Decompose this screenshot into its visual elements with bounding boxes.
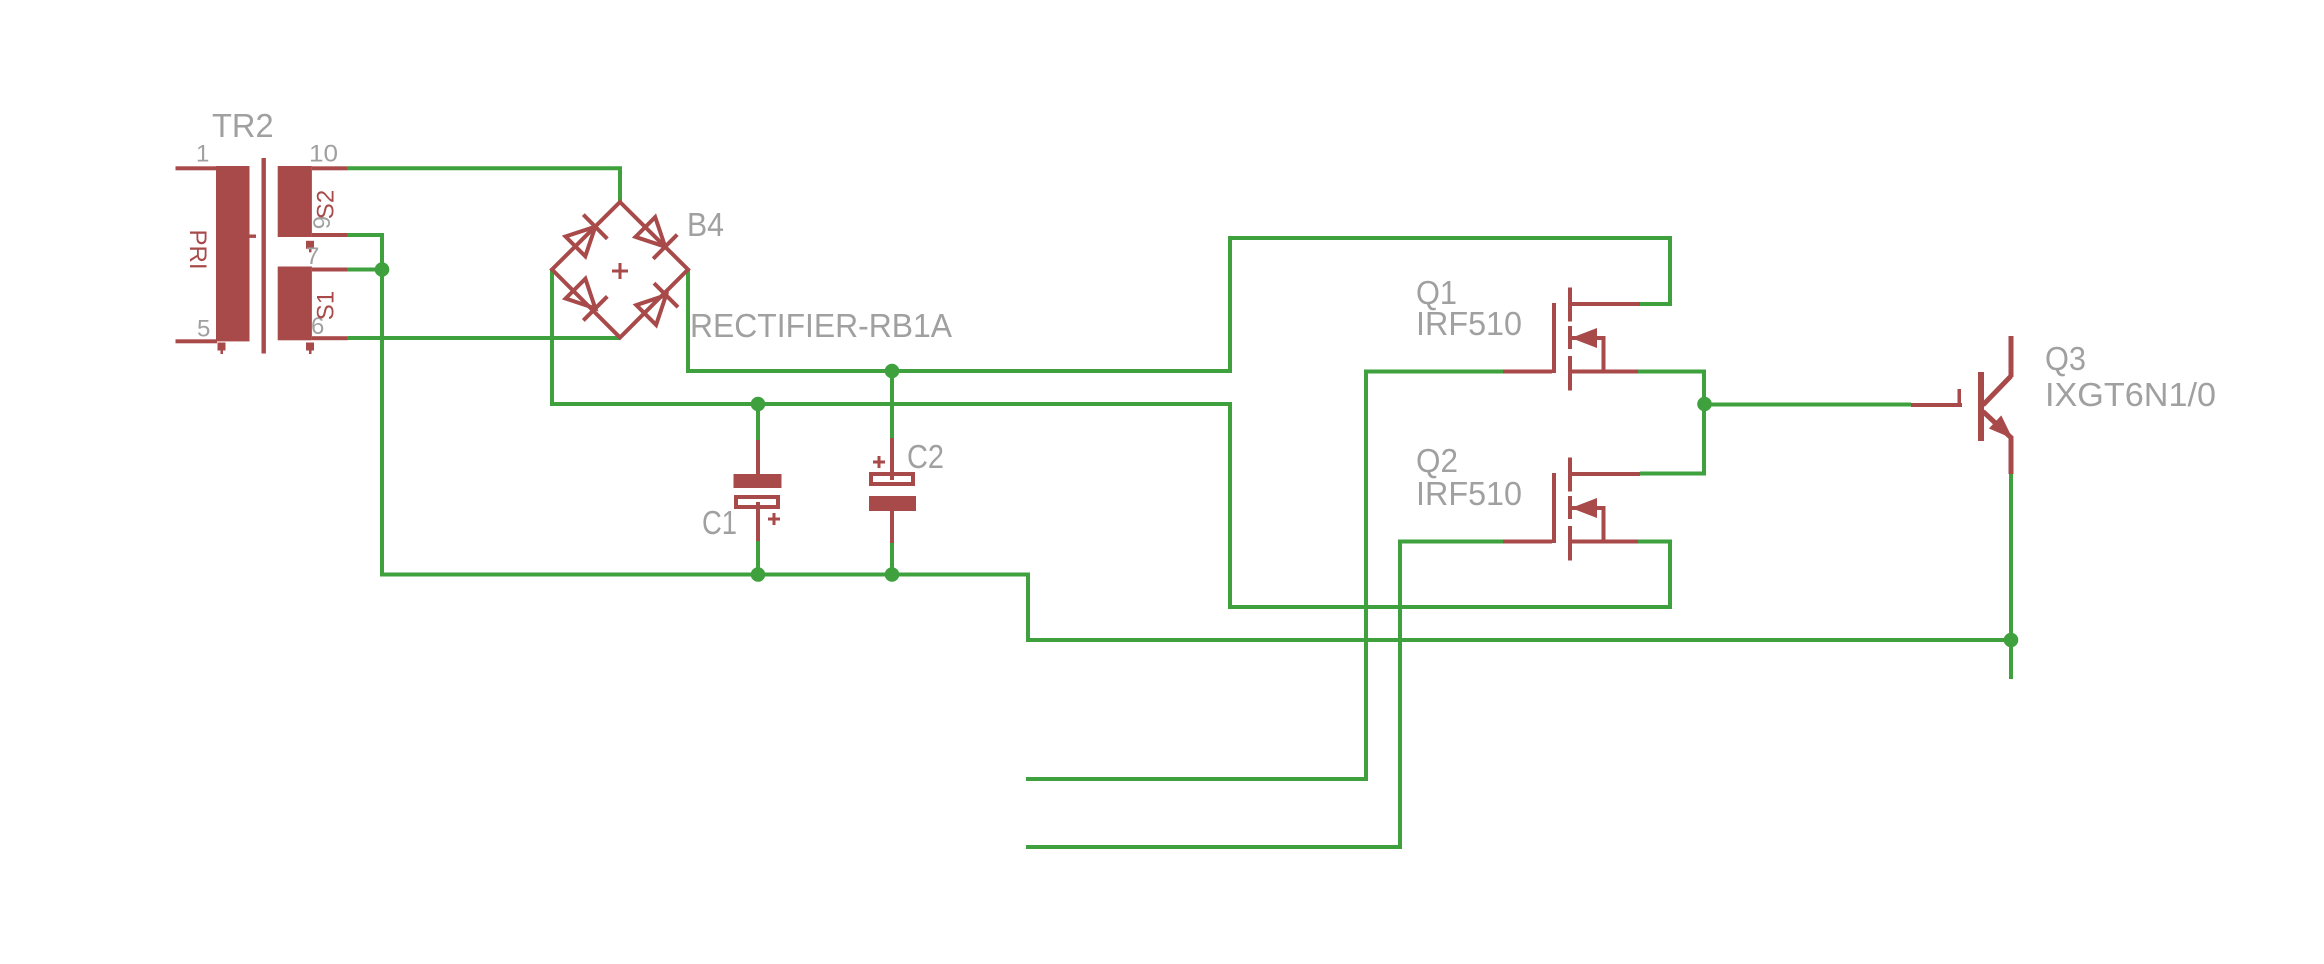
junction node pin7/pin9 xyxy=(375,262,390,277)
svg-text:S1: S1 xyxy=(313,291,340,320)
mosfet Q2 xyxy=(1503,458,1640,561)
C2 plus xyxy=(873,456,885,468)
TR2 pin 10 lead xyxy=(312,166,348,170)
svg-text:Q3: Q3 xyxy=(2045,340,2086,377)
TR2 pin 1 lead xyxy=(176,166,218,170)
TR2 pin9 mark xyxy=(306,241,314,249)
wire pin10 to bridge top xyxy=(348,168,620,202)
svg-text:PRI: PRI xyxy=(184,229,211,269)
Q3 collector diagonal xyxy=(1983,376,2011,405)
C2 bottom lead xyxy=(890,511,894,543)
diode bottom-left xyxy=(566,279,608,321)
svg-text:IXGT6N1/0: IXGT6N1/0 xyxy=(2045,376,2216,413)
Q2 gate bar xyxy=(1552,473,1556,543)
TR2 secondary S2 winding xyxy=(278,166,312,237)
wire Q3 emitter down xyxy=(2009,473,2013,679)
C1 bottom plate (outline) xyxy=(736,497,778,507)
wire Q1 gate xyxy=(1026,372,1503,780)
TR2 secondary S1 winding xyxy=(278,267,312,341)
diode bottom-right xyxy=(636,283,678,325)
Q3 gate tick xyxy=(1958,389,1962,405)
TR2 pin 5 lead xyxy=(176,339,218,343)
svg-text:TR2: TR2 xyxy=(212,107,274,144)
Q1 gate bar xyxy=(1552,303,1556,373)
Q1 source lead xyxy=(1572,370,1638,374)
svg-text:Q2: Q2 xyxy=(1416,442,1458,479)
C1 top plate (filled) xyxy=(734,474,782,488)
TR2 pin 6 lead xyxy=(312,336,348,340)
TR2 polarity tick xyxy=(243,235,256,238)
Q1 bulk line xyxy=(1572,336,1605,340)
Q3 collector vertical xyxy=(2009,336,2014,377)
wire net B: bridge left to Q2 source xyxy=(552,270,1670,607)
junction node C2 bottom xyxy=(885,567,900,582)
capacitor C2 xyxy=(869,438,916,543)
svg-text:C1: C1 xyxy=(702,504,737,541)
wire pin7 stub xyxy=(348,268,382,272)
svg-text:1: 1 xyxy=(196,141,209,168)
wire C1 branch top xyxy=(756,404,760,442)
junction node C1 top xyxy=(751,397,766,412)
C2 bottom plate (filled) xyxy=(869,496,916,511)
Q1 bulk arrow xyxy=(1571,328,1597,348)
svg-text:10: 10 xyxy=(309,141,338,168)
capacitor C1 xyxy=(734,440,782,541)
junction node Q3 emitter / bottom rail xyxy=(2004,633,2019,648)
TR2 pin 7 lead xyxy=(312,268,348,272)
wire C1 branch bottom xyxy=(756,540,760,575)
bridge rectifier B4 xyxy=(552,202,688,338)
svg-text:S2: S2 xyxy=(313,190,340,219)
wire C2 branch top xyxy=(890,371,894,440)
Q3 emitter diagonal xyxy=(1983,412,2012,439)
diode top-right xyxy=(636,217,678,259)
wire pin9 to junction and down to bottom rail xyxy=(348,235,2011,640)
wire pin6 to bridge bottom xyxy=(348,336,620,340)
TR2 core line xyxy=(262,158,266,354)
Q2 bulk line xyxy=(1572,506,1605,510)
TR2 pin5 mark xyxy=(218,343,226,351)
junction node C1 bottom xyxy=(751,567,766,582)
Q3 base bar xyxy=(1978,372,1984,441)
Q2 channel dashes xyxy=(1568,458,1572,492)
wire Q2 gate xyxy=(1026,542,1503,848)
TR2 primary winding xyxy=(216,166,250,341)
Q2 bulk arrow xyxy=(1571,498,1597,518)
svg-text:IRF510: IRF510 xyxy=(1416,305,1522,342)
svg-text:B4: B4 xyxy=(687,206,724,243)
diamond xyxy=(552,202,688,338)
wire net A: bridge right to Q1 drain xyxy=(688,238,1670,371)
Q3 emitter vertical xyxy=(2009,437,2014,474)
wire C2 branch bottom xyxy=(890,542,894,575)
svg-text:C2: C2 xyxy=(907,438,944,475)
Q1 channel dashes xyxy=(1568,288,1572,322)
C1 top lead xyxy=(756,440,760,474)
transistor Q3 xyxy=(1911,336,2014,474)
bridge plus sign xyxy=(612,263,628,279)
Q3 emitter arrow xyxy=(1989,415,2013,438)
TR2 pin6 mark xyxy=(306,343,314,351)
Q3 base lead xyxy=(1911,403,1962,407)
C1 bottom lead xyxy=(756,502,760,541)
junction node Q1 source / Q3 base xyxy=(1697,397,1712,412)
wire node to Q3 base xyxy=(1704,403,1911,407)
Q2 gate lead xyxy=(1503,540,1552,544)
svg-text:IRF510: IRF510 xyxy=(1416,475,1522,512)
Q1 gate lead xyxy=(1503,370,1552,374)
mosfet Q1 xyxy=(1503,288,1640,391)
C2 top lead xyxy=(890,438,894,480)
junction node C2 top xyxy=(885,364,900,379)
svg-text:7: 7 xyxy=(306,243,319,270)
wire node to Q2 drain xyxy=(1640,404,1704,474)
C2 top plate (outline) xyxy=(871,474,913,484)
transformer TR2 xyxy=(176,158,348,354)
svg-text:RECTIFIER-RB1A: RECTIFIER-RB1A xyxy=(690,307,952,344)
wire Q1 source to node xyxy=(1638,372,1704,405)
C1 plus xyxy=(768,513,780,525)
diode top-left xyxy=(566,215,608,257)
TR2 pin 9 lead xyxy=(312,233,348,237)
Q1 drain lead xyxy=(1572,302,1640,306)
Q2 drain lead xyxy=(1572,472,1640,476)
Q2 source lead xyxy=(1572,540,1638,544)
svg-text:5: 5 xyxy=(197,316,210,343)
